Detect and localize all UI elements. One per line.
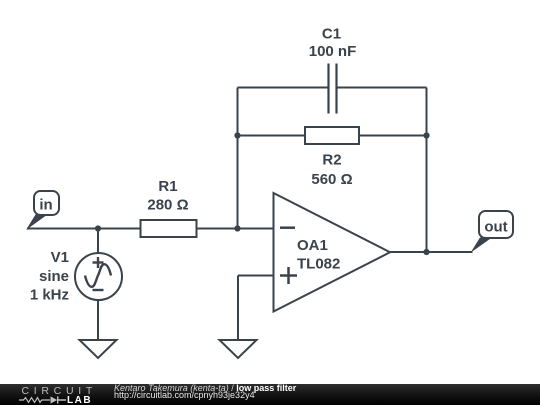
resistor R1 [141, 220, 197, 237]
ground (V1) [80, 340, 117, 358]
junction dot (output / feedback) [423, 249, 429, 255]
wire input main [27, 228, 141, 230]
CircuitLab logo wordmark [22, 385, 97, 397]
resistor R1 label [147, 178, 188, 214]
wire V1 top [97, 229, 99, 254]
footer credit text [114, 385, 296, 401]
svg-text:R2: R2 [322, 152, 341, 169]
svg-text:1 kHz: 1 kHz [30, 287, 69, 304]
wire left feedback column [237, 88, 239, 229]
capacitor C1 [329, 64, 337, 114]
wire top feedback left segment [238, 87, 328, 89]
wire R2 right [359, 135, 427, 137]
op-amp noninverting pin plus sign [280, 274, 297, 277]
voltage source V1 label [30, 249, 69, 304]
junction dot (left column / R2) [234, 132, 240, 138]
capacitor C1 label [309, 26, 357, 61]
svg-text:sine: sine [39, 268, 69, 285]
svg-text:R1: R1 [158, 178, 177, 195]
wire noninverting input horizontal [238, 275, 274, 277]
svg-text:OA1: OA1 [297, 237, 328, 254]
CircuitLab logo LAB [67, 395, 92, 405]
resistor R2 label [311, 152, 352, 189]
svg-text:560 Ω: 560 Ω [311, 171, 352, 188]
wire top feedback right segment [338, 87, 427, 89]
op-amp OA1 [274, 193, 391, 312]
node out flag tail [471, 238, 493, 253]
voltage source V1 [75, 253, 122, 300]
svg-text:C1: C1 [322, 26, 341, 43]
svg-text:in: in [39, 197, 52, 214]
junction dot (right column / R2) [423, 132, 429, 138]
wire R2 left [238, 135, 306, 137]
junction dot (V1 / input wire) [95, 225, 101, 231]
node in flag tail [26, 215, 48, 231]
node out flag bubble [479, 211, 513, 238]
svg-text:100 nF: 100 nF [309, 43, 357, 60]
CircuitLab logo resistor-diode mark [19, 395, 67, 405]
op-amp OA1 label [297, 237, 340, 273]
svg-text:V1: V1 [51, 249, 69, 266]
wire noninverting input vertical [237, 276, 239, 341]
wire right feedback column [426, 88, 428, 253]
svg-text:TL082: TL082 [297, 256, 340, 273]
svg-text:out: out [484, 219, 507, 236]
footer bar [0, 384, 540, 405]
wire R1 to inverting input [197, 228, 274, 230]
wire output [390, 251, 473, 253]
op-amp inverting pin minus sign [280, 226, 295, 229]
junction dot (feedback / input wire) [234, 225, 240, 231]
wire V1 bottom [97, 300, 99, 341]
resistor R2 [305, 127, 359, 144]
ground (op-amp noninverting input) [220, 340, 257, 358]
svg-text:280 Ω: 280 Ω [147, 197, 188, 214]
node in flag bubble [34, 191, 59, 215]
